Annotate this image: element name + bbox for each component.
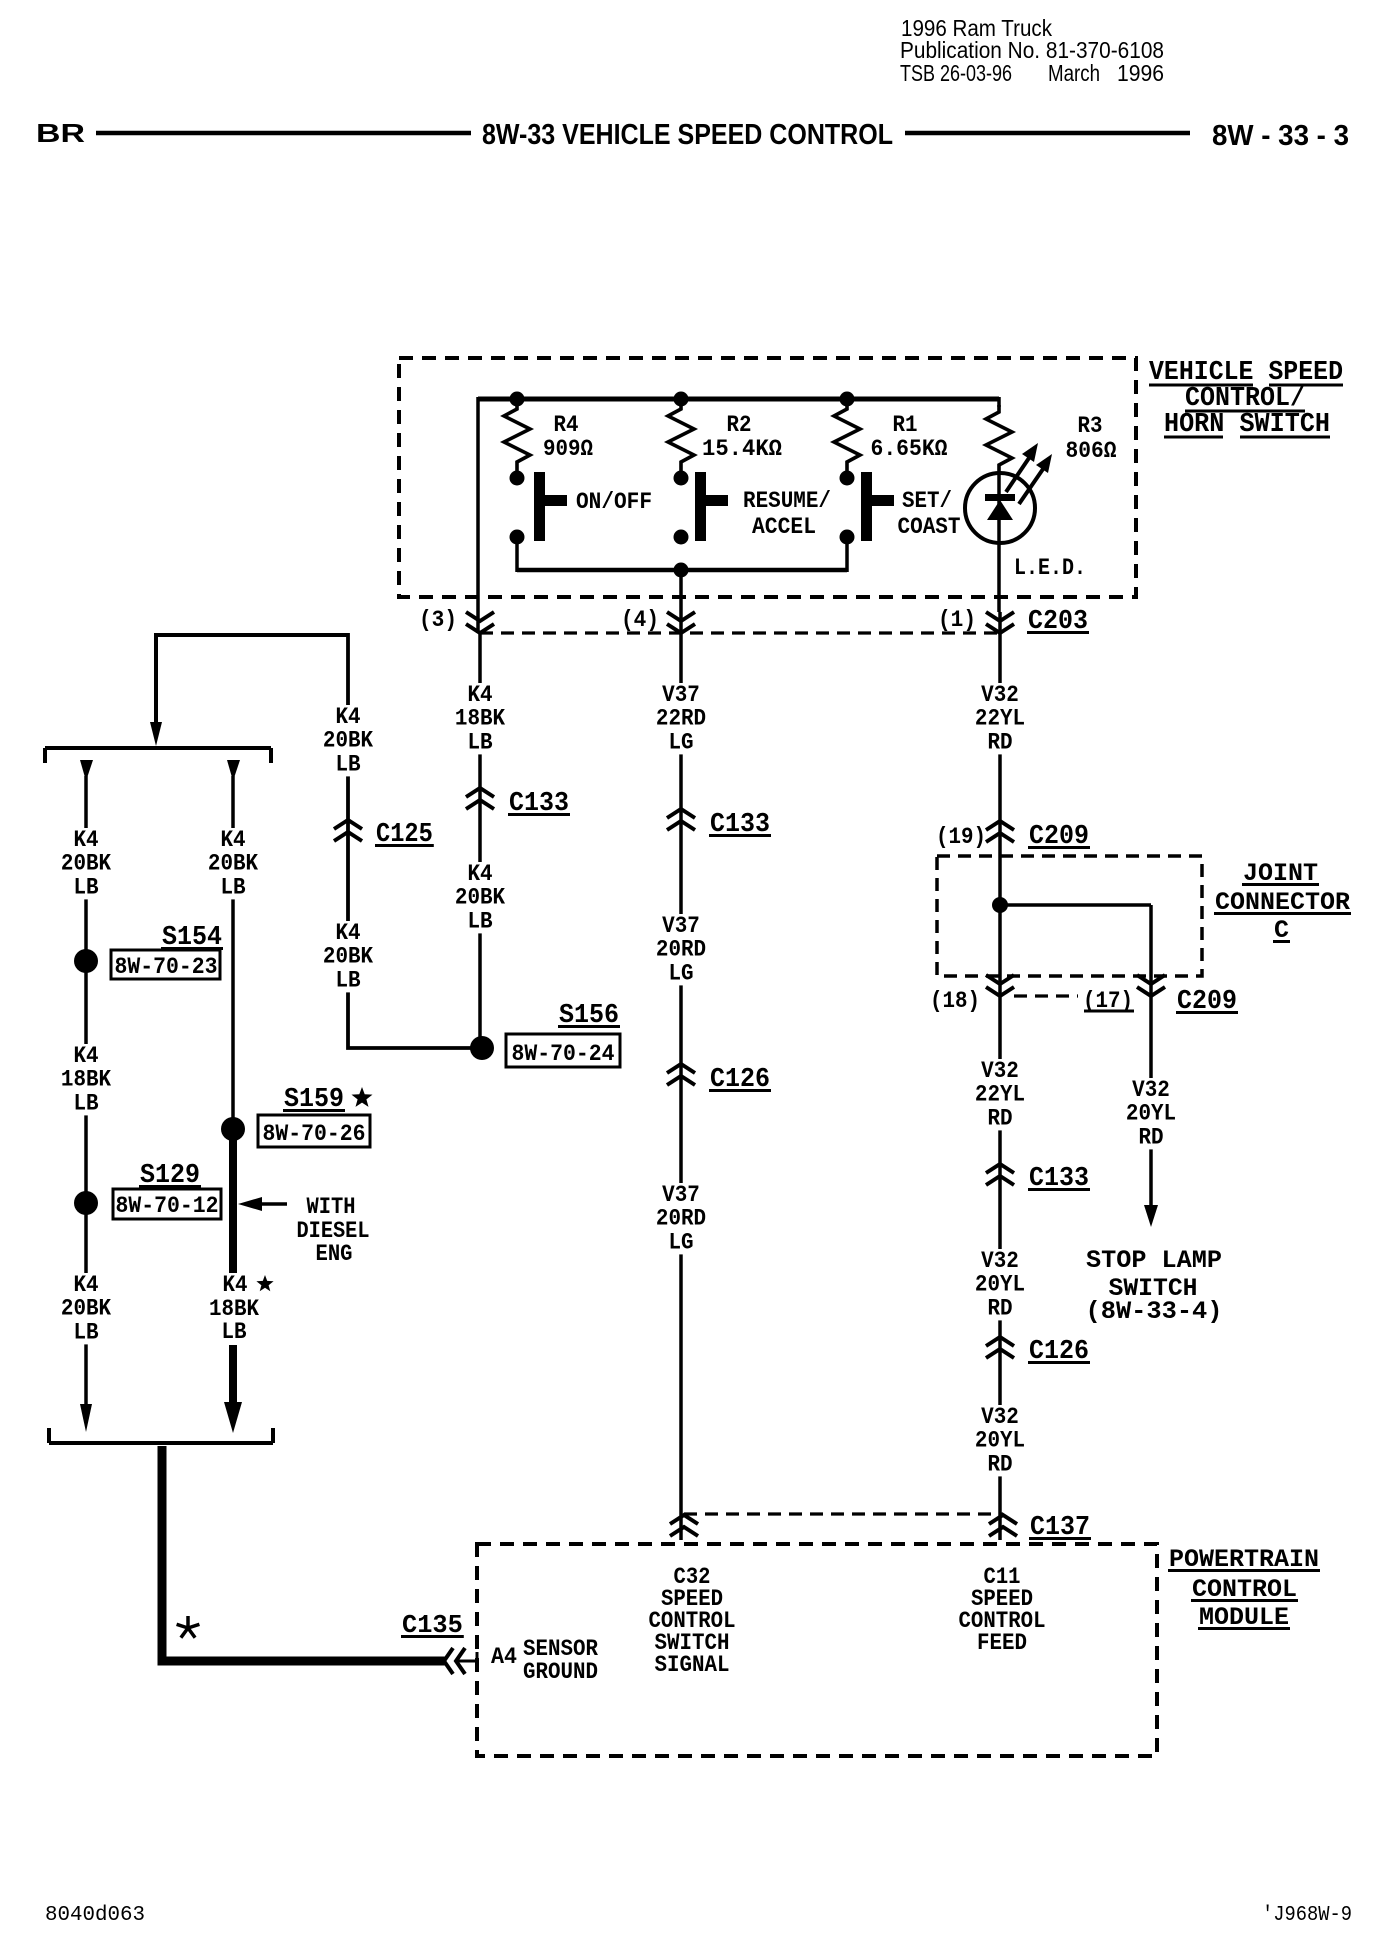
label VEHICLE SPEED CONTROL/ HORN SWITCH xyxy=(1149,358,1343,440)
label R1 6.65Kohm xyxy=(871,412,948,462)
connector C209 pin19 chevron xyxy=(986,821,1014,842)
svg-text:8W-70-26: 8W-70-26 xyxy=(263,1121,366,1147)
svg-text:ACCEL: ACCEL xyxy=(752,514,816,540)
label K4 20BK LB (C125 col) xyxy=(319,704,377,778)
arrowhead wire2 xyxy=(227,760,240,781)
wire column B V37 (C203-4 to C137) xyxy=(679,570,683,1540)
label V32 20YL RD (stop lamp) xyxy=(1122,1077,1180,1151)
box 8W-70-23 xyxy=(111,950,220,980)
switch RESUME/ACCEL xyxy=(695,472,728,541)
connector C125 chevron xyxy=(334,820,362,841)
label C32 SPEED CONTROL SWITCH SIGNAL xyxy=(649,1564,736,1678)
svg-text:LB: LB xyxy=(73,1090,98,1117)
connector C203 pin 4 chevron xyxy=(667,612,695,633)
box 8W-70-26 xyxy=(258,1115,370,1147)
svg-text:8040d063: 8040d063 xyxy=(45,1904,145,1927)
svg-text:ON/OFF: ON/OFF xyxy=(576,489,652,515)
svg-text:1996: 1996 xyxy=(1117,60,1164,86)
wire ON/OFF to switch bus xyxy=(515,543,519,572)
label A4 SENSOR GROUND xyxy=(491,1636,598,1685)
connector C209 pin17 chevron xyxy=(1137,975,1165,996)
svg-text:RD: RD xyxy=(987,729,1012,756)
arrowhead stop lamp xyxy=(1144,1205,1158,1227)
connector C203 pin 3 chevron xyxy=(466,612,494,633)
wire left column L1 xyxy=(84,776,88,1416)
connector C126 chevron (mid) xyxy=(667,1064,695,1085)
node R2 bottom xyxy=(674,471,689,486)
svg-text:8W - 33 - 3: 8W - 33 - 3 xyxy=(1212,120,1349,152)
node R1 bottom xyxy=(840,471,855,486)
wire left branch down xyxy=(154,633,158,734)
header publication info xyxy=(900,15,1164,86)
label C203 xyxy=(1027,607,1089,637)
svg-text:WITH: WITH xyxy=(307,1194,356,1220)
svg-text:8W-70-12: 8W-70-12 xyxy=(116,1193,219,1219)
LED D1 circle xyxy=(965,473,1035,543)
page code BR xyxy=(36,118,85,148)
box 8W-70-12 xyxy=(113,1189,221,1219)
splice S154 xyxy=(74,949,98,973)
svg-text:SET/: SET/ xyxy=(902,488,952,514)
label STOP LAMP SWITCH (8W-33-4) xyxy=(1086,1246,1223,1326)
node ON/OFF bottom xyxy=(510,530,525,545)
label V32 20YL RD (lower) xyxy=(971,1404,1029,1478)
header page number 8W-33-3 xyxy=(1212,120,1349,152)
wire ground thick xyxy=(162,1446,445,1661)
label S129 xyxy=(139,1161,201,1191)
label SET/COAST xyxy=(898,488,961,540)
svg-text:LG: LG xyxy=(668,1229,693,1256)
box 8W-70-24 xyxy=(506,1034,620,1067)
connector C203 pin 1 chevron xyxy=(986,612,1014,633)
arrowhead L1 bottom xyxy=(80,1404,92,1432)
connector C133 chevron (right) xyxy=(986,1164,1014,1185)
label S156 xyxy=(558,1001,620,1031)
label (18) xyxy=(930,988,980,1014)
label POWERTRAIN CONTROL MODULE xyxy=(1168,1545,1320,1632)
wire SET/COAST to switch bus xyxy=(845,543,849,572)
node R4 top xyxy=(510,392,525,407)
node R4 bottom xyxy=(510,471,525,486)
svg-text:(18): (18) xyxy=(930,988,980,1014)
svg-text:R4: R4 xyxy=(554,412,579,438)
wire top bus xyxy=(478,397,999,402)
label (17) xyxy=(1083,988,1134,1014)
asterisk near C135 xyxy=(177,1616,200,1638)
wire through LED to C203 pin1 xyxy=(997,473,1001,612)
svg-text:RD: RD xyxy=(987,1295,1012,1322)
svg-text:8W-70-23: 8W-70-23 xyxy=(115,954,218,980)
svg-text:LB: LB xyxy=(467,908,492,935)
svg-text:LB: LB xyxy=(335,967,360,994)
svg-text:LB: LB xyxy=(220,874,245,901)
wire left column L2 thin xyxy=(231,776,235,1129)
svg-text:15.4KΩ: 15.4KΩ xyxy=(702,436,782,462)
label C135 xyxy=(401,1610,464,1640)
svg-text:'J968W-9: 'J968W-9 xyxy=(1262,1904,1352,1927)
label K4 20BK LB (column A) xyxy=(451,861,509,935)
connector C133 chevron (mid) xyxy=(667,809,695,830)
svg-text:RD: RD xyxy=(987,1105,1012,1132)
label C11 SPEED CONTROL FEED xyxy=(959,1564,1046,1656)
svg-text:L.E.D.: L.E.D. xyxy=(1014,555,1086,581)
ground bus bracket top xyxy=(45,748,271,763)
svg-text:LB: LB xyxy=(222,1319,247,1345)
label RESUME/ACCEL xyxy=(743,488,831,540)
resistor R3 xyxy=(986,405,1012,473)
svg-text:R1: R1 xyxy=(893,412,918,438)
node R2 top xyxy=(674,392,689,407)
label ON/OFF xyxy=(576,489,652,515)
svg-text:LB: LB xyxy=(73,874,98,901)
label (3) xyxy=(419,607,457,633)
svg-text:6.65KΩ: 6.65KΩ xyxy=(871,436,948,462)
label JOINT CONNECTOR C xyxy=(1214,859,1351,945)
label R2 15.4Kohm xyxy=(702,412,782,462)
switch ON/OFF xyxy=(534,472,567,541)
splice S129 xyxy=(74,1191,98,1215)
asterisk after S159 xyxy=(352,1087,373,1107)
wire column A K4 (C203-3 to S156) xyxy=(478,397,480,1048)
node joint connector junction xyxy=(992,897,1008,913)
label C137 xyxy=(1029,1513,1091,1543)
switch SET/COAST xyxy=(861,472,894,541)
node RESUME/ACCEL bottom xyxy=(674,530,689,545)
label V32 22YL RD (below C209) xyxy=(971,1058,1029,1132)
footer 8040d063 xyxy=(45,1904,145,1927)
connector C209 pin18 chevron xyxy=(986,975,1014,996)
connector C133 chevron (left) xyxy=(466,788,494,809)
asterisk after K4 xyxy=(256,1275,273,1291)
wire C135 stub into PCM xyxy=(456,1652,477,1661)
resistor R1 xyxy=(834,402,860,472)
label K4 20BK LB (L1 lower) xyxy=(57,1272,115,1346)
svg-text:K4: K4 xyxy=(223,1272,248,1298)
label (19) xyxy=(936,824,986,850)
label V32 22YL RD xyxy=(971,682,1029,756)
connector C137 chevron right xyxy=(989,1515,1017,1536)
svg-text:A4: A4 xyxy=(491,1644,517,1670)
svg-text:COAST: COAST xyxy=(898,514,961,540)
svg-text:SIGNAL: SIGNAL xyxy=(655,1652,730,1678)
svg-text:RD: RD xyxy=(987,1451,1012,1478)
label V37 20RD LG (lower) xyxy=(652,1182,710,1256)
arrowhead wire1 xyxy=(80,760,93,781)
arrowhead L2 bottom thick xyxy=(224,1402,242,1433)
footer J968W-9 xyxy=(1262,1904,1352,1927)
connector C137 dashed line xyxy=(684,1512,1003,1515)
wire S159 thick (diesel) xyxy=(229,1138,237,1410)
resistor R2 xyxy=(668,402,694,472)
label V32 20YL RD (mid) xyxy=(971,1248,1029,1322)
wire column F V32 (C209-17 to stop lamp switch) xyxy=(1149,905,1153,1207)
node switch bus junction xyxy=(674,563,689,578)
label K4 20BK LB (C125 col lower) xyxy=(319,920,377,994)
header rule right xyxy=(905,131,1190,136)
wire bus corner to R3 xyxy=(997,397,1001,407)
label K4 20BK LB (L2) xyxy=(204,827,262,901)
wire switch bus xyxy=(517,568,847,573)
node SET/COAST bottom xyxy=(840,530,855,545)
svg-text:LB: LB xyxy=(467,729,492,756)
LED cathode bar xyxy=(985,494,1015,501)
connector C137 chevron left xyxy=(670,1515,698,1536)
label C125 xyxy=(375,820,434,850)
label C209 bottom xyxy=(1176,987,1238,1017)
connector C203 dashed line xyxy=(480,631,1000,634)
wire joint connector branch xyxy=(1000,903,1151,907)
svg-text:LG: LG xyxy=(668,960,693,987)
wire column E V32 (C203-1 to C137) xyxy=(998,612,1002,1540)
svg-text:STOP LAMP: STOP LAMP xyxy=(1086,1246,1222,1275)
powertrain control module dashed box xyxy=(477,1544,1157,1756)
label C133 left xyxy=(508,789,570,819)
svg-text:RESUME/: RESUME/ xyxy=(743,488,831,514)
arrow WITH DIESEL ENG xyxy=(238,1197,287,1211)
connector C135 chevron xyxy=(444,1648,465,1674)
arrowhead into ground bus xyxy=(150,722,162,746)
label C133 mid xyxy=(709,810,771,840)
label S159 xyxy=(283,1085,345,1115)
label (1) xyxy=(938,607,976,633)
svg-text:LB: LB xyxy=(73,1319,98,1346)
svg-text:ENG: ENG xyxy=(316,1241,353,1267)
LED emission arrow 2 xyxy=(1019,454,1052,504)
splice S159 xyxy=(221,1117,245,1141)
label (4) xyxy=(621,607,659,633)
svg-text:909Ω: 909Ω xyxy=(543,436,593,462)
LED emission arrow 1 xyxy=(1006,443,1038,492)
label V37 20RD LG (upper) xyxy=(652,913,710,987)
splice S156 xyxy=(470,1036,494,1060)
label K4 20BK LB (L1) xyxy=(57,827,115,901)
joint connector C dashed box xyxy=(937,856,1202,976)
svg-text:(1): (1) xyxy=(938,607,976,633)
label C209 top xyxy=(1028,822,1090,852)
label R4 909ohm xyxy=(543,412,593,462)
label C133 right xyxy=(1028,1164,1090,1194)
svg-text:R3: R3 xyxy=(1078,413,1103,439)
svg-text:LB: LB xyxy=(335,751,360,778)
svg-text:TSB 26-03-96: TSB 26-03-96 xyxy=(900,60,1012,86)
ground bus bracket bottom xyxy=(49,1428,273,1443)
svg-text:R2: R2 xyxy=(727,412,752,438)
svg-text:LG: LG xyxy=(668,729,693,756)
label L.E.D. xyxy=(1014,555,1086,581)
label C126 right xyxy=(1028,1337,1090,1367)
label K4 18BK LB (L1) xyxy=(57,1043,115,1117)
svg-text:8W-70-24: 8W-70-24 xyxy=(512,1041,615,1067)
node R1 top xyxy=(840,392,855,407)
label C126 mid xyxy=(709,1065,771,1095)
header title 8W-33 VEHICLE SPEED CONTROL xyxy=(482,119,893,151)
header rule left xyxy=(96,131,471,136)
label R3 806ohm xyxy=(1066,413,1117,464)
svg-text:(3): (3) xyxy=(419,607,457,633)
label K4 18BK LB xyxy=(451,682,509,756)
resistor R4 xyxy=(504,402,530,472)
label V37 22RD LG xyxy=(652,682,710,756)
svg-text:GROUND: GROUND xyxy=(523,1659,598,1685)
label WITH DIESEL ENG xyxy=(297,1194,370,1267)
svg-text:(19): (19) xyxy=(936,824,986,850)
svg-text:(8W-33-4): (8W-33-4) xyxy=(1086,1297,1223,1326)
svg-text:RD: RD xyxy=(1138,1124,1163,1151)
svg-text:FEED: FEED xyxy=(977,1630,1027,1656)
svg-text:(4): (4) xyxy=(621,607,659,633)
svg-text:8W-33 VEHICLE SPEED CONTROL: 8W-33 VEHICLE SPEED CONTROL xyxy=(482,119,893,151)
connector C209 dashed line xyxy=(1014,994,1078,997)
connector C126 chevron (right) xyxy=(986,1337,1014,1358)
svg-text:March: March xyxy=(1048,60,1100,86)
label S154 xyxy=(161,923,223,953)
vehicle speed control/horn switch dashed box xyxy=(399,358,1136,597)
LED anode triangle xyxy=(987,500,1013,520)
label K4 18BK LB (L2 lower) xyxy=(206,1272,262,1345)
svg-text:806Ω: 806Ω xyxy=(1066,438,1117,464)
wire column C125 branch xyxy=(156,633,478,1048)
svg-text:BR: BR xyxy=(36,118,85,148)
